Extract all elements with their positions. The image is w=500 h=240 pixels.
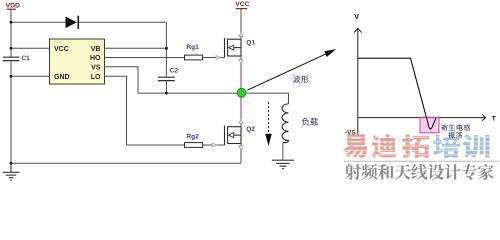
wire: Rg1 to Q1 gate [203, 57, 217, 59]
watermark big characters 易迪拓培训 [343, 134, 367, 158]
capacitor C2 [158, 77, 175, 80]
wire: Q1 source to switch node (highlighted) [240, 63, 242, 89]
svg-text:V: V [354, 14, 359, 21]
wire: top wire from VDD rail to diode anode [11, 21, 66, 23]
junction: left rail / ground rail [10, 162, 13, 165]
label 振荡 (second line under parasitic label) [449, 132, 455, 138]
power terminal VCC (top of Q1) [235, 1, 249, 9]
wire: Rg2 to Q2 gate [203, 144, 213, 146]
wire: VB pin to bootstrap node [105, 47, 167, 49]
wire: top wire from diode cathode to VB drop [79, 21, 166, 23]
resistor Rg2 [185, 143, 203, 148]
svg-text:C2: C2 [170, 68, 179, 75]
wire: switch node down to Q2 drain (highlighted) [240, 97, 242, 120]
annotation arrow: switch node waveform pointer [247, 49, 336, 90]
wire: HO pin to Rg1 [105, 57, 185, 59]
wire: switch node to load (top) [288, 93, 290, 104]
graph: V axis [354, 28, 362, 135]
wire: LO pin staircase to Rg2 [105, 76, 185, 145]
svg-text:Q1: Q1 [246, 40, 255, 47]
watermark halftone stripes [341, 137, 491, 154]
ground (under load) [272, 160, 294, 168]
power terminal VDD [6, 3, 20, 10]
wire: ground rail [11, 162, 241, 164]
svg-text:VB: VB [91, 46, 101, 53]
junction: VCC wire [10, 47, 13, 50]
svg-text:T: T [492, 115, 496, 122]
current arrow (dashed, load current) [265, 102, 272, 146]
pin marker: Q1 drain triangle [239, 33, 243, 37]
svg-text:VS: VS [91, 64, 101, 71]
label 负载 (load) [302, 118, 309, 126]
capacitor C1 [3, 57, 20, 60]
transistor Q1 (high-side NMOS) [225, 38, 242, 58]
svg-text:VCC: VCC [54, 46, 69, 53]
pin marker: Q2 source triangle [240, 144, 242, 146]
junction: top wire [10, 21, 13, 24]
graph: waveform trace [358, 58, 436, 129]
svg-text:VDD: VDD [6, 3, 20, 10]
svg-text:Rg1: Rg1 [186, 44, 199, 51]
label 波形 (waveform) [293, 75, 301, 83]
resistor Rg1 [185, 55, 203, 60]
highlight box (parasitic inductance dip) [420, 117, 439, 133]
wire: VCC to Q1 drain [240, 9, 242, 33]
op-amp U1 gate-driver IC block [50, 39, 105, 84]
wire: VB node down to C2 top [165, 48, 167, 77]
svg-text:GND: GND [54, 74, 70, 81]
inductor L1 (load) [282, 104, 288, 143]
svg-text:LO: LO [91, 74, 101, 81]
junction: C2 on VS wire [165, 92, 168, 95]
transistor Q2 (low-side NMOS) [225, 126, 242, 146]
wire: vertical drop from top wire to VB node [165, 22, 167, 48]
pin marker: Q2 gate triangle [212, 143, 217, 147]
wire: VCC pin to left rail [11, 47, 50, 49]
node: switch node (green) [237, 88, 246, 97]
wire: VDD rail upper (left rail above C1) [10, 9, 12, 57]
wire: load bottom to ground [282, 142, 284, 160]
diode D1 (bootstrap diode) [66, 16, 79, 29]
svg-text:Q2: Q2 [246, 126, 255, 133]
watermark slogan 射频和天线设计专家 [345, 164, 361, 180]
wire: Q2 source down to ground rail [240, 150, 242, 164]
graph: T axis [358, 115, 486, 121]
watermark rule [344, 160, 499, 162]
svg-text:Rg2: Rg2 [186, 133, 199, 140]
wire: C2 bottom to VS wire [165, 81, 167, 93]
pin marker: Q2 drain triangle [239, 119, 243, 123]
pin marker: Q1 gate triangle [216, 56, 221, 60]
wire: VS pin staircase to switch node [105, 67, 289, 93]
junction: diode to VB node [165, 47, 168, 50]
ground (left) [3, 163, 20, 180]
svg-text:C1: C1 [21, 55, 30, 62]
svg-text:HO: HO [90, 55, 101, 62]
pin marker: Q1 source triangle [240, 56, 242, 60]
junction: GND wire [10, 75, 13, 78]
label 寄生电感 (parasitic inductance) [441, 124, 447, 131]
svg-text:VCC: VCC [235, 1, 249, 8]
wire: GND pin to left rail [11, 75, 50, 77]
wire: left rail below C1 down to ground rail [10, 61, 12, 163]
